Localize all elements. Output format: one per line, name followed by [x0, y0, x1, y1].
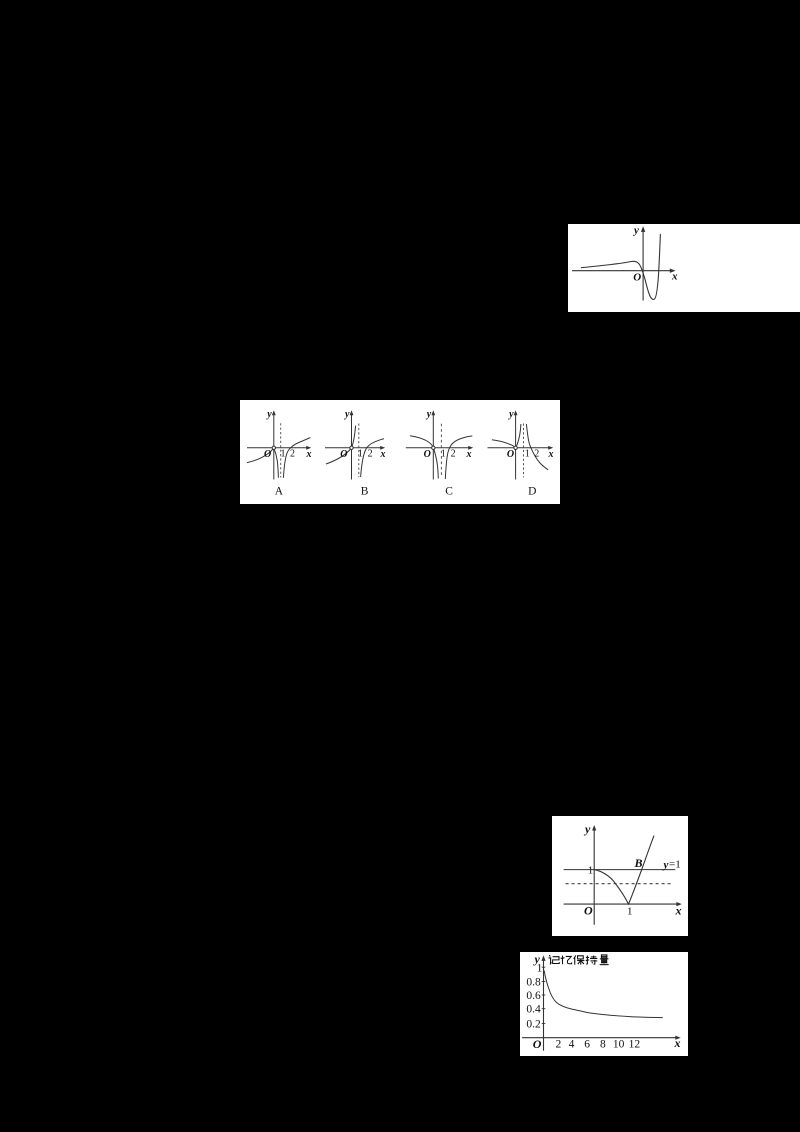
svg-text:x: x [675, 903, 682, 917]
svg-text:O: O [264, 449, 271, 460]
svg-text:O: O [584, 903, 593, 917]
svg-text:0.4: 0.4 [526, 1004, 541, 1016]
svg-text:O: O [424, 449, 431, 460]
svg-text:B: B [361, 485, 369, 497]
svg-text:x: x [306, 449, 312, 460]
svg-text:x: x [671, 270, 678, 282]
svg-text:1: 1 [588, 864, 594, 876]
svg-text:12: 12 [629, 1039, 641, 1051]
svg-text:1: 1 [358, 449, 363, 460]
svg-text:0.6: 0.6 [526, 990, 541, 1002]
svg-text:x: x [465, 449, 471, 460]
svg-text:y: y [632, 225, 639, 237]
svg-text:D: D [528, 485, 536, 497]
svg-text:2: 2 [290, 449, 295, 460]
svg-text:x: x [380, 449, 386, 460]
svg-text:0.8: 0.8 [526, 976, 541, 988]
svg-text:2: 2 [556, 1039, 562, 1051]
svg-text:1: 1 [537, 963, 543, 975]
svg-text:6: 6 [584, 1039, 590, 1051]
svg-text:x: x [674, 1036, 681, 1050]
svg-text:O: O [633, 271, 641, 283]
svg-text:y: y [344, 409, 350, 420]
svg-text:1: 1 [441, 449, 446, 460]
svg-text:O: O [533, 1037, 542, 1051]
svg-text:O: O [340, 449, 347, 460]
svg-text:y: y [583, 822, 591, 836]
svg-text:=1: =1 [669, 859, 681, 871]
svg-text:2: 2 [368, 449, 373, 460]
svg-text:4: 4 [569, 1039, 575, 1051]
svg-text:y: y [662, 859, 669, 871]
svg-text:A: A [275, 485, 284, 497]
svg-text:O: O [507, 449, 514, 460]
svg-text:2: 2 [534, 449, 539, 460]
svg-text:0.2: 0.2 [526, 1018, 541, 1030]
svg-text:10: 10 [613, 1039, 625, 1051]
svg-text:1: 1 [627, 905, 633, 917]
svg-text:y: y [266, 409, 272, 420]
svg-text:1: 1 [281, 449, 286, 460]
svg-text:8: 8 [600, 1039, 606, 1051]
svg-text:C: C [445, 485, 453, 497]
svg-text:B: B [634, 856, 643, 870]
svg-text:y: y [426, 409, 432, 420]
svg-text:2: 2 [451, 449, 456, 460]
svg-text:x: x [547, 449, 553, 460]
svg-text:1: 1 [525, 449, 530, 460]
svg-text:y: y [508, 409, 514, 420]
